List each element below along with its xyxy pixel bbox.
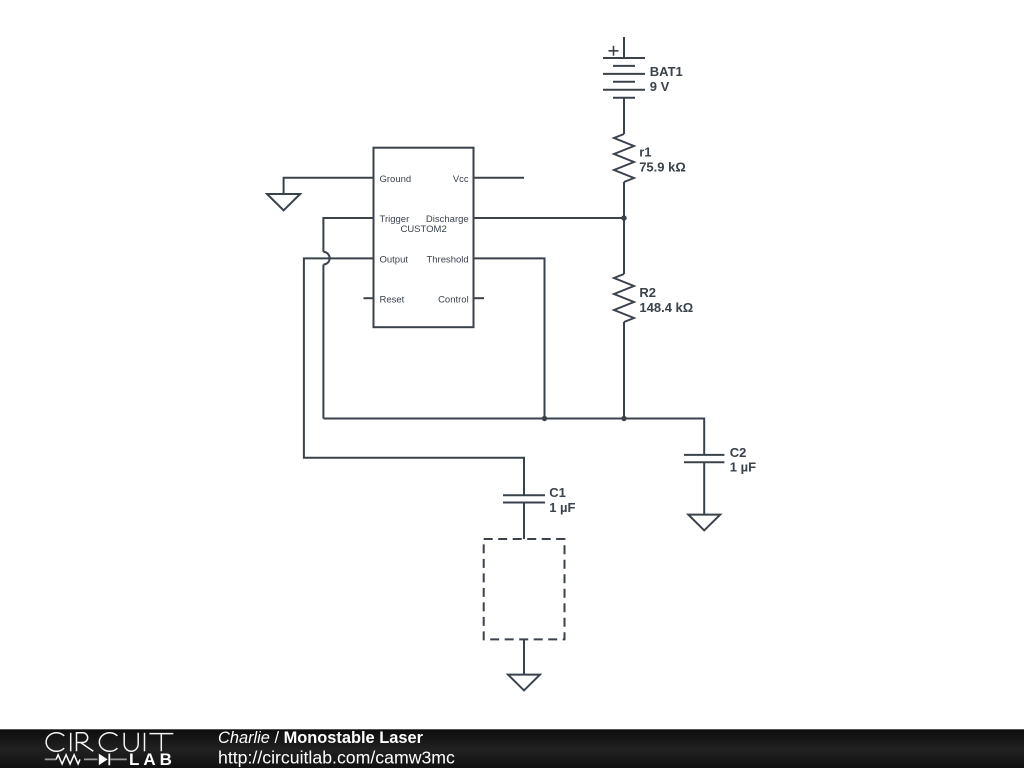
wire R2 to bottom node xyxy=(623,322,625,419)
svg-text:75.9 kΩ: 75.9 kΩ xyxy=(639,159,686,174)
ground symbol IC xyxy=(267,194,300,210)
svg-text:Reset: Reset xyxy=(380,295,405,306)
svg-text:1 µF: 1 µF xyxy=(730,460,756,475)
node junction r1 R2 discharge xyxy=(621,215,626,220)
svg-text:R2: R2 xyxy=(639,285,656,300)
logo resistor zigzag xyxy=(45,758,98,760)
wire ground pin xyxy=(284,178,374,194)
wire discharge xyxy=(474,217,625,219)
svg-text:LAB: LAB xyxy=(129,750,176,768)
node junction R2 bottom wire xyxy=(621,416,626,421)
wire trigger xyxy=(323,218,373,419)
svg-text:C2: C2 xyxy=(730,445,747,460)
svg-text:Ground: Ground xyxy=(380,174,412,185)
svg-text:BAT1: BAT1 xyxy=(650,64,683,79)
svg-text:Vcc: Vcc xyxy=(453,174,469,185)
logo CIRCUIT xyxy=(46,733,173,752)
bottom horizontal wire xyxy=(323,419,704,455)
node junction threshold bottom wire xyxy=(542,416,547,421)
resistor R2 xyxy=(614,218,693,322)
capacitor C2 xyxy=(684,445,756,474)
svg-text:9 V: 9 V xyxy=(650,79,670,94)
wire box to ground xyxy=(523,640,525,675)
pin stub Control xyxy=(474,297,485,299)
resistor r1 xyxy=(614,134,686,182)
svg-text:CUSTOM2: CUSTOM2 xyxy=(400,224,446,235)
svg-text:1 µF: 1 µF xyxy=(549,500,575,515)
wire C2 to ground xyxy=(703,462,705,514)
dashed box laser element xyxy=(484,539,565,639)
svg-text:Output: Output xyxy=(380,255,409,266)
ground symbol C2 xyxy=(688,515,720,531)
pin stub Reset xyxy=(364,297,374,299)
logo diode xyxy=(99,754,108,766)
wire r1 to node xyxy=(623,182,625,218)
battery BAT1 xyxy=(603,37,683,98)
ground symbol laser xyxy=(508,675,540,691)
wire vcc xyxy=(474,177,525,179)
wire C1 to box xyxy=(523,503,525,540)
wire battery to r1 xyxy=(623,98,625,134)
svg-text:r1: r1 xyxy=(639,144,651,159)
svg-text:C1: C1 xyxy=(549,485,566,500)
svg-text:Threshold: Threshold xyxy=(426,255,468,266)
wire threshold xyxy=(474,258,545,418)
svg-text:148.4 kΩ: 148.4 kΩ xyxy=(639,300,693,315)
svg-text:Charlie / Monostable Laser: Charlie / Monostable Laser xyxy=(218,729,424,747)
wire output xyxy=(304,258,524,495)
svg-text:http://circuitlab.com/camw3mc: http://circuitlab.com/camw3mc xyxy=(218,748,455,768)
svg-text:Control: Control xyxy=(438,295,469,306)
op-amp U1 CUSTOM2 box xyxy=(374,148,474,328)
capacitor C1 xyxy=(503,485,576,515)
